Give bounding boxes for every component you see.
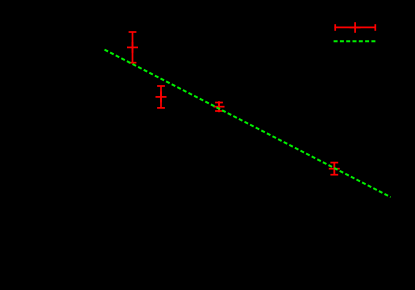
fit line (green dashed) bbox=[105, 50, 391, 198]
data point 1 plus marker bbox=[127, 42, 138, 53]
legend fit-line sample (green dashed) bbox=[334, 40, 377, 42]
legend errorbar sample (red) bbox=[334, 24, 375, 31]
data point 4 plus marker bbox=[329, 163, 340, 174]
data point 3 plus marker bbox=[214, 101, 225, 112]
data point 1 error bar bbox=[129, 32, 137, 63]
data point 2 error bar bbox=[157, 86, 165, 108]
data point 4 error bar bbox=[330, 163, 338, 175]
data point 2 plus marker bbox=[156, 91, 167, 102]
legend plus marker sample bbox=[350, 22, 361, 33]
data point 3 error bar bbox=[215, 103, 223, 112]
